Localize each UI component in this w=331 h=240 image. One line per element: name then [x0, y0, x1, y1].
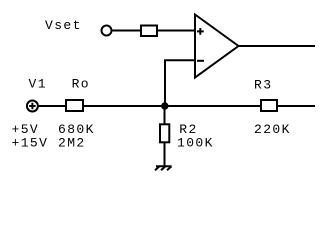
wire Vset terminal to R — [112, 30, 140, 32]
svg-text:+5V: +5V — [12, 122, 40, 137]
svg-text:680K: 680K — [58, 122, 95, 137]
op-amp U1 — [195, 15, 239, 78]
terminal V1 + mark — [29, 103, 35, 109]
ground — [155, 166, 172, 170]
svg-text:220K: 220K — [254, 122, 291, 137]
wire R2 to ground — [164, 142, 166, 166]
terminal V1 — [27, 101, 38, 112]
wire V1 to Ro — [38, 105, 66, 107]
svg-text:100K: 100K — [177, 136, 214, 151]
svg-text:Ro: Ro — [72, 76, 90, 91]
resistor (top, unlabeled) — [141, 26, 157, 37]
wire node to R2 — [164, 106, 166, 124]
junction node dot — [161, 102, 168, 109]
wire R to op-amp + input — [158, 30, 194, 32]
svg-text:+15V: +15V — [12, 136, 49, 151]
resistor R2 — [160, 124, 169, 142]
svg-text:R2: R2 — [179, 122, 197, 137]
op-amp + mark — [197, 28, 204, 35]
wire op-amp output — [239, 45, 316, 47]
resistor Ro — [66, 100, 83, 111]
wire node to R3 — [165, 105, 261, 107]
svg-text:R3: R3 — [254, 78, 272, 93]
svg-text:Vset: Vset — [45, 18, 82, 33]
op-amp - mark — [197, 60, 204, 62]
terminal Vset — [102, 26, 112, 36]
wire feedback: - input to node — [165, 60, 194, 105]
wire R3 to right — [277, 105, 315, 107]
svg-text:V1: V1 — [29, 76, 47, 91]
wire Ro to node — [83, 105, 165, 107]
svg-text:2M2: 2M2 — [58, 136, 86, 151]
resistor R3 — [261, 100, 277, 111]
